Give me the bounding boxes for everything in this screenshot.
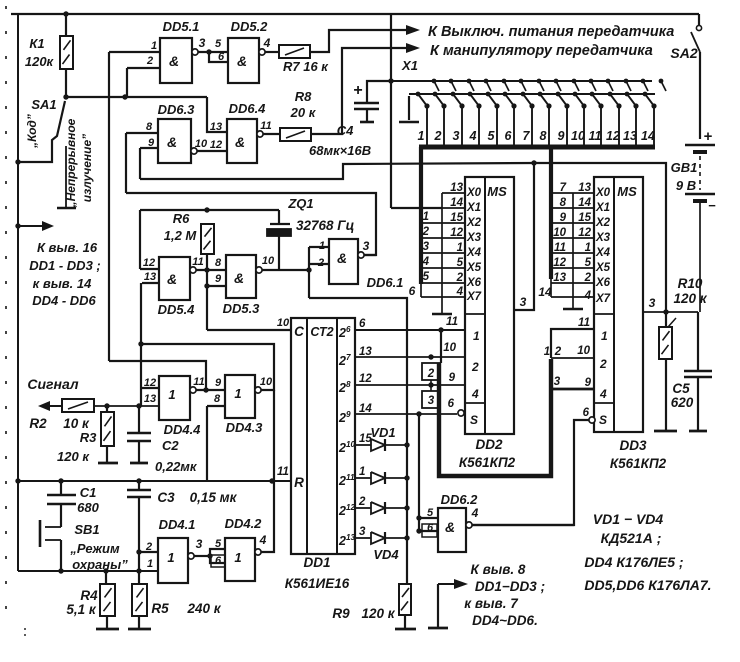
svg-text:DD4.2: DD4.2 bbox=[225, 516, 263, 531]
svg-text:2: 2 bbox=[358, 496, 366, 508]
svg-text:4: 4 bbox=[456, 286, 464, 298]
svg-text:2: 2 bbox=[146, 55, 153, 67]
svg-text:7: 7 bbox=[523, 129, 531, 143]
svg-text:6: 6 bbox=[505, 129, 513, 143]
svg-text:11: 11 bbox=[578, 317, 590, 329]
svg-text:1: 1 bbox=[544, 346, 550, 358]
svg-text:9: 9 bbox=[558, 129, 565, 143]
svg-text:R4: R4 bbox=[80, 588, 98, 603]
svg-text:6: 6 bbox=[409, 284, 416, 298]
svg-text:VD4: VD4 bbox=[373, 547, 399, 562]
svg-text:5: 5 bbox=[215, 538, 222, 550]
svg-text:2: 2 bbox=[338, 474, 346, 488]
svg-text:10: 10 bbox=[195, 138, 208, 150]
svg-text:240 к: 240 к bbox=[186, 601, 221, 616]
svg-text:S: S bbox=[599, 413, 607, 427]
svg-text:2: 2 bbox=[338, 411, 346, 425]
svg-text:13: 13 bbox=[144, 271, 156, 283]
svg-text:1: 1 bbox=[601, 329, 608, 343]
svg-text:R10: R10 bbox=[678, 276, 703, 291]
svg-text:2: 2 bbox=[584, 272, 592, 284]
svg-text:5: 5 bbox=[488, 129, 496, 143]
svg-text:к выв. 7: к выв. 7 bbox=[464, 596, 519, 611]
svg-text:К561КП2: К561КП2 bbox=[459, 455, 516, 470]
svg-text:К1: К1 bbox=[29, 36, 44, 51]
svg-text:8: 8 bbox=[214, 393, 221, 405]
svg-text:к выв. 14: к выв. 14 bbox=[33, 276, 92, 291]
svg-text:2: 2 bbox=[338, 441, 346, 455]
svg-text:DD6.4: DD6.4 bbox=[229, 101, 267, 116]
svg-text:X1: X1 bbox=[466, 202, 481, 214]
svg-text:DD5.4: DD5.4 bbox=[158, 302, 196, 317]
svg-text:5: 5 bbox=[423, 271, 430, 283]
svg-text:680: 680 bbox=[77, 500, 99, 515]
svg-text:15: 15 bbox=[578, 212, 591, 224]
svg-text:12: 12 bbox=[578, 227, 591, 239]
svg-text:1,2 М: 1,2 М bbox=[164, 228, 198, 243]
svg-text:120 к: 120 к bbox=[57, 449, 90, 464]
svg-text:X7: X7 bbox=[595, 293, 611, 305]
svg-text:1: 1 bbox=[585, 242, 591, 254]
svg-text:13: 13 bbox=[553, 272, 566, 284]
svg-text:„Режим: „Режим bbox=[69, 541, 120, 556]
svg-text:С5: С5 bbox=[672, 381, 690, 396]
svg-text:R3: R3 bbox=[80, 430, 97, 445]
svg-text:К Выключ. питания передатчика: К Выключ. питания передатчика bbox=[428, 24, 674, 40]
svg-text:DD4.1: DD4.1 bbox=[159, 517, 196, 532]
svg-text:X5: X5 bbox=[466, 262, 482, 274]
svg-text:120 к: 120 к bbox=[673, 291, 707, 306]
svg-text:11: 11 bbox=[346, 473, 355, 482]
svg-text:C: C bbox=[294, 324, 304, 339]
svg-text:SB1: SB1 bbox=[74, 522, 99, 537]
svg-text:3: 3 bbox=[196, 537, 203, 551]
svg-text:10: 10 bbox=[260, 376, 273, 388]
svg-text:+: + bbox=[704, 128, 713, 145]
svg-text:VD1: VD1 bbox=[370, 425, 395, 440]
svg-text:X0: X0 bbox=[466, 187, 482, 199]
svg-text:SA2: SA2 bbox=[670, 45, 697, 61]
svg-text:&: & bbox=[337, 250, 347, 266]
svg-text:&: & bbox=[169, 53, 179, 69]
svg-text:1: 1 bbox=[473, 329, 480, 343]
svg-text:X1: X1 bbox=[595, 202, 610, 214]
svg-text:12: 12 bbox=[553, 257, 566, 269]
svg-text:7: 7 bbox=[346, 353, 351, 362]
svg-text:12: 12 bbox=[143, 257, 155, 269]
svg-text:X6: X6 bbox=[595, 277, 611, 289]
svg-text:120к: 120к bbox=[25, 54, 55, 69]
svg-text:DD6.2: DD6.2 bbox=[441, 492, 479, 507]
svg-text:10: 10 bbox=[577, 345, 590, 357]
svg-text:X6: X6 bbox=[466, 277, 482, 289]
svg-text:13: 13 bbox=[359, 346, 372, 358]
svg-text:DD5.3: DD5.3 bbox=[223, 301, 261, 316]
svg-text:К561ИЕ16: К561ИЕ16 bbox=[285, 576, 350, 591]
svg-text:DD1 - DD3 ;: DD1 - DD3 ; bbox=[29, 258, 101, 273]
svg-text:15: 15 bbox=[450, 212, 463, 224]
svg-text:&: & bbox=[445, 519, 455, 535]
svg-text:R9: R9 bbox=[332, 606, 350, 621]
svg-text:3: 3 bbox=[423, 241, 430, 253]
svg-text:R6: R6 bbox=[173, 211, 190, 226]
svg-text:6: 6 bbox=[359, 318, 366, 330]
svg-text:5: 5 bbox=[215, 38, 222, 50]
svg-text:14: 14 bbox=[450, 197, 463, 209]
svg-text:11: 11 bbox=[193, 376, 204, 388]
svg-text:DD6.3: DD6.3 bbox=[158, 102, 196, 117]
svg-text:6: 6 bbox=[346, 325, 351, 334]
svg-text:&: & bbox=[234, 270, 244, 286]
svg-text:10: 10 bbox=[571, 129, 585, 143]
svg-text:VD1 − VD4: VD1 − VD4 bbox=[593, 511, 664, 527]
svg-text:9: 9 bbox=[215, 273, 222, 285]
svg-text:120 к: 120 к bbox=[361, 606, 395, 621]
svg-text:9: 9 bbox=[449, 372, 456, 384]
svg-text:1: 1 bbox=[147, 558, 153, 570]
svg-text:10: 10 bbox=[262, 255, 275, 267]
svg-text:2: 2 bbox=[338, 381, 346, 395]
svg-text:&: & bbox=[167, 271, 177, 287]
svg-text:0,15 мк: 0,15 мк bbox=[190, 490, 238, 505]
svg-text:10: 10 bbox=[277, 317, 290, 329]
svg-text:12: 12 bbox=[359, 373, 372, 385]
svg-text:GB1: GB1 bbox=[671, 160, 698, 175]
svg-text:13: 13 bbox=[450, 182, 463, 194]
svg-text:5: 5 bbox=[457, 257, 464, 269]
svg-text:СТ2: СТ2 bbox=[310, 325, 333, 339]
svg-text:6: 6 bbox=[448, 398, 455, 410]
svg-text:5: 5 bbox=[427, 507, 434, 519]
svg-text:6: 6 bbox=[583, 407, 590, 419]
svg-text:5,1 к: 5,1 к bbox=[66, 602, 97, 617]
svg-text:13: 13 bbox=[623, 129, 637, 143]
svg-text:4: 4 bbox=[471, 506, 479, 520]
svg-text:SA1: SA1 bbox=[31, 97, 56, 112]
svg-text:12: 12 bbox=[346, 503, 356, 512]
svg-text:R5: R5 bbox=[151, 601, 169, 616]
svg-text:1: 1 bbox=[423, 211, 429, 223]
svg-text:DD4~DD6.: DD4~DD6. bbox=[472, 613, 538, 628]
svg-text:11: 11 bbox=[277, 466, 289, 478]
svg-text:ZQ1: ZQ1 bbox=[287, 196, 313, 211]
svg-text:11: 11 bbox=[446, 316, 458, 328]
svg-text:&: & bbox=[237, 53, 247, 69]
svg-text:8: 8 bbox=[215, 257, 222, 269]
svg-text:DD4.3: DD4.3 bbox=[226, 420, 264, 435]
svg-text:9: 9 bbox=[215, 377, 222, 389]
svg-text:охраны”: охраны” bbox=[72, 557, 128, 572]
svg-text:2: 2 bbox=[145, 541, 152, 553]
svg-text:11: 11 bbox=[589, 129, 602, 143]
svg-text:3: 3 bbox=[199, 36, 206, 50]
svg-text:X4: X4 bbox=[466, 247, 482, 259]
svg-text:4: 4 bbox=[584, 290, 592, 302]
svg-text:14: 14 bbox=[359, 403, 372, 415]
svg-text:R7 16 к: R7 16 к bbox=[283, 59, 329, 74]
svg-text:32768 Гц: 32768 Гц bbox=[296, 218, 355, 233]
svg-text:0,22мк: 0,22мк bbox=[155, 459, 198, 474]
svg-text:10: 10 bbox=[346, 440, 356, 449]
svg-text:3: 3 bbox=[428, 395, 435, 407]
svg-text:7: 7 bbox=[560, 182, 567, 194]
svg-text:10 к: 10 к bbox=[63, 416, 90, 431]
svg-text:DD5.2: DD5.2 bbox=[231, 19, 269, 34]
svg-text:4: 4 bbox=[469, 129, 477, 143]
svg-text:11: 11 bbox=[260, 120, 271, 132]
svg-text:X0: X0 bbox=[595, 187, 611, 199]
svg-text:3: 3 bbox=[453, 129, 460, 143]
svg-text:X2: X2 bbox=[595, 217, 611, 229]
svg-text:9: 9 bbox=[585, 377, 592, 389]
svg-text:1: 1 bbox=[359, 466, 365, 478]
svg-text:1: 1 bbox=[168, 387, 175, 402]
svg-text:1: 1 bbox=[167, 550, 174, 565]
svg-text:10: 10 bbox=[553, 227, 566, 239]
svg-text:12: 12 bbox=[606, 129, 620, 143]
svg-text:X1: X1 bbox=[401, 58, 418, 73]
svg-text:9: 9 bbox=[148, 137, 155, 149]
svg-text:4: 4 bbox=[471, 387, 479, 401]
svg-text:DD3: DD3 bbox=[619, 438, 646, 453]
svg-text:DD2: DD2 bbox=[475, 437, 502, 452]
svg-text:MS: MS bbox=[487, 184, 507, 199]
svg-text:X3: X3 bbox=[595, 232, 611, 244]
svg-text:DD4 К176ЛЕ5 ;: DD4 К176ЛЕ5 ; bbox=[584, 554, 683, 570]
svg-text:−: − bbox=[708, 198, 716, 213]
svg-text:9: 9 bbox=[560, 212, 567, 224]
svg-text:2: 2 bbox=[471, 360, 479, 374]
svg-text:3: 3 bbox=[554, 376, 561, 388]
svg-text:&: & bbox=[167, 134, 177, 150]
svg-text:К выв. 8: К выв. 8 bbox=[471, 562, 526, 577]
svg-text:3: 3 bbox=[520, 295, 527, 309]
svg-text:+: + bbox=[353, 82, 362, 99]
svg-text:12: 12 bbox=[450, 227, 463, 239]
svg-text:8: 8 bbox=[346, 380, 351, 389]
svg-text:4: 4 bbox=[263, 36, 271, 50]
svg-text:R8: R8 bbox=[295, 89, 312, 104]
svg-text:3: 3 bbox=[359, 526, 366, 538]
svg-text:11: 11 bbox=[554, 242, 566, 254]
svg-text:2: 2 bbox=[338, 326, 346, 340]
svg-text:14: 14 bbox=[538, 285, 552, 299]
svg-text:2: 2 bbox=[434, 129, 442, 143]
svg-text:20 к: 20 к bbox=[290, 105, 317, 120]
svg-text:1: 1 bbox=[234, 550, 241, 565]
svg-text:К манипулятору передатчика: К манипулятору передатчика bbox=[430, 43, 653, 59]
svg-text:R2: R2 bbox=[29, 416, 47, 431]
svg-text:2: 2 bbox=[554, 346, 562, 358]
svg-text:12: 12 bbox=[210, 139, 222, 151]
svg-text:DD5.1: DD5.1 bbox=[163, 19, 200, 34]
svg-text:620: 620 bbox=[671, 395, 694, 410]
svg-text:DD6.1: DD6.1 bbox=[367, 275, 404, 290]
svg-text:2: 2 bbox=[427, 368, 435, 380]
svg-text:Сигнал: Сигнал bbox=[27, 376, 79, 392]
svg-text:8: 8 bbox=[540, 129, 547, 143]
svg-text:13: 13 bbox=[144, 393, 156, 405]
svg-text:„Непрерывное: „Непрерывное bbox=[64, 118, 78, 208]
svg-text:14: 14 bbox=[578, 197, 591, 209]
svg-text:4: 4 bbox=[259, 533, 267, 547]
svg-text:9: 9 bbox=[346, 410, 351, 419]
svg-text:13: 13 bbox=[578, 182, 591, 194]
svg-text:S: S bbox=[470, 413, 478, 427]
svg-text:8: 8 bbox=[146, 121, 153, 133]
svg-text:13: 13 bbox=[346, 533, 356, 542]
svg-text:С2: С2 bbox=[162, 438, 179, 453]
svg-text:14: 14 bbox=[641, 129, 655, 143]
svg-text:X3: X3 bbox=[466, 232, 482, 244]
svg-text:2: 2 bbox=[422, 226, 430, 238]
svg-text:2: 2 bbox=[338, 354, 346, 368]
svg-text:К выв. 16: К выв. 16 bbox=[37, 240, 98, 255]
svg-text:излучение”: излучение” bbox=[80, 134, 94, 202]
svg-text:X4: X4 bbox=[595, 247, 611, 259]
svg-text:11: 11 bbox=[192, 256, 203, 268]
svg-text:К561КП2: К561КП2 bbox=[610, 456, 667, 471]
svg-text:DD1−DD3 ;: DD1−DD3 ; bbox=[475, 579, 545, 594]
svg-text:2: 2 bbox=[599, 357, 607, 371]
svg-text:X5: X5 bbox=[595, 262, 611, 274]
svg-text:4: 4 bbox=[422, 256, 430, 268]
svg-text:КД521А ;: КД521А ; bbox=[601, 530, 662, 546]
svg-text:DD5,DD6 К176ЛА7.: DD5,DD6 К176ЛА7. bbox=[584, 577, 711, 593]
svg-text:&: & bbox=[235, 134, 245, 150]
svg-text:1: 1 bbox=[151, 40, 157, 52]
svg-text:2: 2 bbox=[456, 272, 464, 284]
svg-text:2: 2 bbox=[338, 534, 346, 548]
svg-text:„Код”: „Код” bbox=[25, 114, 39, 149]
svg-text:1: 1 bbox=[234, 386, 241, 401]
svg-text:3: 3 bbox=[363, 239, 370, 253]
svg-text:С4: С4 bbox=[337, 123, 354, 138]
svg-text:С3: С3 bbox=[157, 490, 175, 505]
svg-text:DD4.4: DD4.4 bbox=[164, 422, 202, 437]
svg-text:X2: X2 bbox=[466, 217, 482, 229]
svg-text:MS: MS bbox=[617, 184, 637, 199]
svg-text:13: 13 bbox=[210, 121, 222, 133]
svg-text:4: 4 bbox=[599, 387, 607, 401]
svg-text:3: 3 bbox=[649, 296, 656, 310]
svg-text:С1: С1 bbox=[80, 485, 97, 500]
svg-text:8: 8 bbox=[560, 197, 567, 209]
svg-text:9 В: 9 В bbox=[676, 178, 696, 193]
svg-text:R: R bbox=[294, 475, 304, 490]
svg-text:X7: X7 bbox=[466, 291, 482, 303]
svg-text:5: 5 bbox=[585, 257, 592, 269]
svg-text:DD1: DD1 bbox=[303, 555, 330, 570]
svg-text:2: 2 bbox=[338, 504, 346, 518]
svg-text:DD4 - DD6: DD4 - DD6 bbox=[32, 293, 96, 308]
svg-text:10: 10 bbox=[443, 342, 456, 354]
svg-text:68мк×16В: 68мк×16В bbox=[309, 143, 371, 158]
svg-text:6: 6 bbox=[215, 555, 222, 567]
svg-text:1: 1 bbox=[457, 242, 463, 254]
svg-text:1: 1 bbox=[418, 129, 425, 143]
svg-text:6: 6 bbox=[218, 51, 225, 63]
